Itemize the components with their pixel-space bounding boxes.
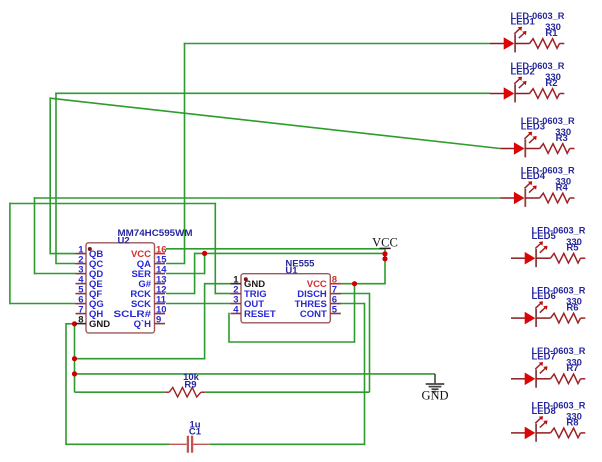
svg-text:LED8: LED8: [532, 406, 556, 417]
svg-text:R4: R4: [556, 182, 569, 193]
svg-text:LED5: LED5: [532, 231, 557, 242]
svg-text:LED1: LED1: [511, 16, 536, 27]
svg-text:RESET: RESET: [244, 309, 276, 320]
svg-text:4: 4: [233, 304, 239, 315]
svg-text:R7: R7: [566, 363, 578, 374]
svg-text:R5: R5: [566, 243, 579, 254]
svg-text:5: 5: [332, 304, 338, 315]
svg-text:LED6: LED6: [532, 291, 556, 302]
svg-text:R8: R8: [566, 417, 578, 428]
svg-text:LED7: LED7: [532, 352, 556, 363]
svg-text:R2: R2: [545, 78, 557, 89]
svg-text:LED3: LED3: [521, 121, 545, 132]
svg-text:VCC: VCC: [372, 236, 398, 250]
svg-text:R9: R9: [184, 379, 196, 390]
svg-text:GND: GND: [89, 319, 110, 330]
svg-text:C1: C1: [189, 427, 202, 438]
svg-text:R6: R6: [566, 303, 578, 314]
svg-text:9: 9: [156, 314, 161, 325]
svg-text:U2: U2: [118, 235, 130, 246]
svg-text:R1: R1: [545, 28, 558, 39]
svg-text:U1: U1: [285, 266, 298, 277]
svg-text:GND: GND: [421, 389, 448, 403]
svg-text:LED2: LED2: [511, 66, 535, 77]
svg-text:CONT: CONT: [300, 309, 327, 320]
svg-text:Q`H: Q`H: [134, 319, 152, 330]
svg-text:R3: R3: [556, 133, 568, 144]
svg-text:LED4: LED4: [521, 171, 546, 182]
svg-text:8: 8: [78, 314, 83, 325]
